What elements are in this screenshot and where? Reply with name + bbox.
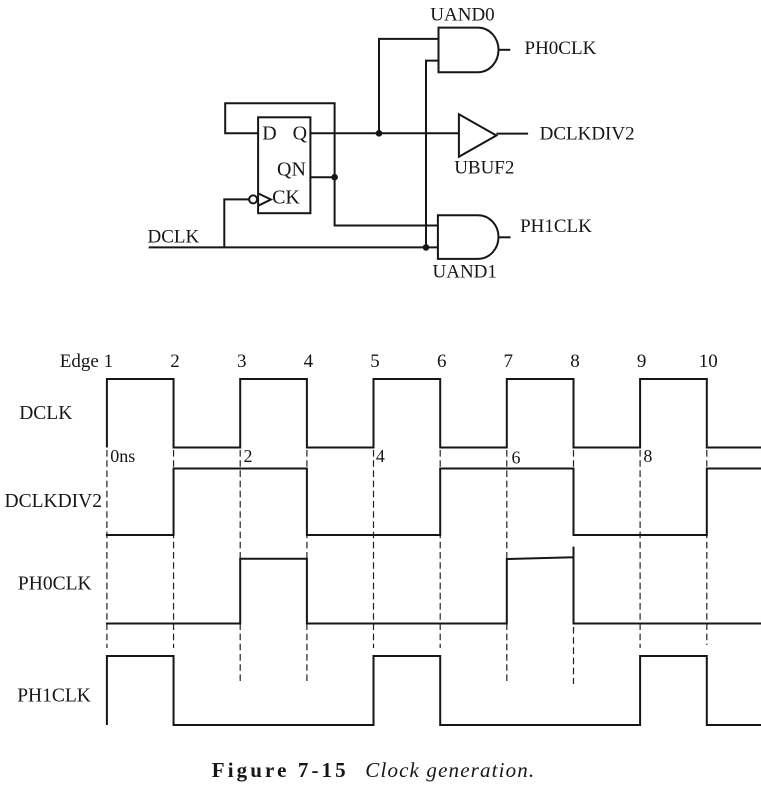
svg-text:Figure 7-15: Figure 7-15 [212, 758, 349, 782]
svg-text:Q: Q [293, 123, 308, 145]
svg-text:UBUF2: UBUF2 [454, 157, 514, 178]
svg-text:2: 2 [170, 351, 180, 372]
svg-text:6: 6 [512, 448, 521, 468]
svg-text:8: 8 [570, 351, 580, 372]
svg-text:D: D [262, 123, 276, 145]
svg-text:PH0CLK: PH0CLK [18, 574, 92, 595]
svg-text:7: 7 [504, 351, 514, 372]
svg-text:5: 5 [370, 351, 380, 372]
svg-text:UAND0: UAND0 [430, 4, 494, 25]
svg-text:6: 6 [437, 351, 447, 372]
svg-text:3: 3 [237, 351, 247, 372]
svg-text:8: 8 [643, 446, 652, 466]
svg-text:0ns: 0ns [110, 446, 135, 466]
svg-text:Clock generation.: Clock generation. [365, 758, 535, 782]
svg-text:DCLKDIV2: DCLKDIV2 [5, 491, 103, 512]
svg-text:DCLK: DCLK [148, 227, 200, 248]
svg-text:4: 4 [376, 446, 385, 466]
svg-text:1: 1 [104, 351, 114, 372]
svg-text:Edge: Edge [60, 351, 99, 372]
svg-text:UAND1: UAND1 [433, 262, 497, 283]
svg-text:DCLKDIV2: DCLKDIV2 [540, 123, 635, 144]
svg-text:PH1CLK: PH1CLK [520, 216, 592, 237]
svg-text:PH0CLK: PH0CLK [525, 38, 597, 59]
svg-text:CK: CK [272, 187, 300, 209]
svg-text:2: 2 [244, 446, 253, 466]
svg-text:9: 9 [637, 351, 647, 372]
svg-text:PH1CLK: PH1CLK [17, 686, 91, 707]
svg-text:QN: QN [277, 159, 306, 181]
svg-text:10: 10 [699, 351, 718, 372]
svg-text:4: 4 [304, 351, 314, 372]
svg-text:DCLK: DCLK [19, 403, 72, 424]
